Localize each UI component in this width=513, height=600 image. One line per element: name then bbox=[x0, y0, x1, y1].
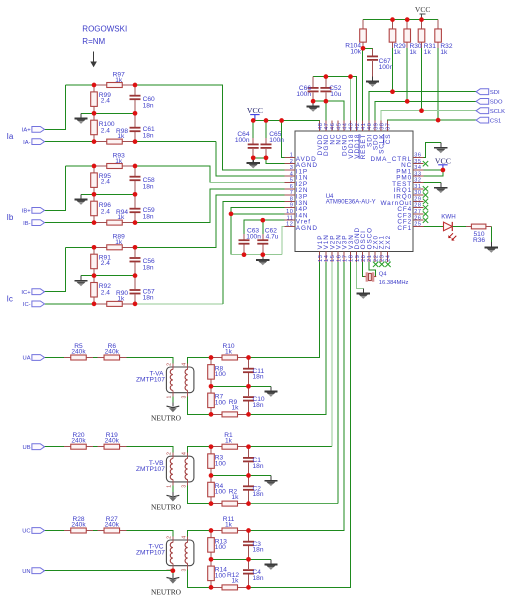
svg-text:40: 40 bbox=[367, 123, 373, 130]
svg-text:2.4: 2.4 bbox=[101, 98, 110, 105]
svg-text:Ic: Ic bbox=[7, 295, 13, 304]
svg-text:10k: 10k bbox=[350, 48, 361, 55]
svg-text:47: 47 bbox=[324, 123, 330, 130]
svg-text:UC: UC bbox=[22, 529, 30, 535]
svg-text:48: 48 bbox=[318, 123, 324, 130]
svg-text:100n: 100n bbox=[379, 64, 394, 71]
svg-text:27: 27 bbox=[414, 209, 421, 215]
svg-text:NEUTRO: NEUTRO bbox=[151, 587, 182, 596]
svg-text:42: 42 bbox=[355, 123, 361, 130]
svg-text:38: 38 bbox=[380, 123, 386, 130]
svg-text:100n: 100n bbox=[246, 233, 261, 240]
svg-text:CS1: CS1 bbox=[490, 118, 501, 124]
svg-text:30: 30 bbox=[414, 190, 421, 196]
svg-text:4: 4 bbox=[182, 363, 188, 366]
svg-text:2.4: 2.4 bbox=[101, 127, 110, 134]
svg-text:1k: 1k bbox=[232, 494, 240, 501]
svg-text:240k: 240k bbox=[71, 438, 86, 445]
svg-text:2.4: 2.4 bbox=[101, 179, 110, 186]
svg-text:R=NM: R=NM bbox=[82, 37, 105, 46]
svg-text:18n: 18n bbox=[143, 295, 154, 302]
svg-text:18n: 18n bbox=[253, 402, 264, 409]
svg-text:100n: 100n bbox=[296, 91, 311, 98]
svg-text:16: 16 bbox=[336, 255, 342, 262]
svg-text:100n: 100n bbox=[235, 137, 250, 144]
svg-text:1k: 1k bbox=[225, 521, 233, 528]
svg-text:100: 100 bbox=[215, 489, 226, 496]
svg-text:32: 32 bbox=[414, 178, 421, 184]
svg-text:ATM90E36A-AU-Y: ATM90E36A-AU-Y bbox=[326, 200, 376, 206]
svg-text:44: 44 bbox=[343, 123, 349, 130]
svg-text:SDO: SDO bbox=[490, 100, 503, 106]
svg-text:18n: 18n bbox=[253, 374, 264, 381]
svg-text:IC-: IC- bbox=[23, 302, 31, 308]
svg-text:1k: 1k bbox=[394, 49, 402, 56]
svg-text:34: 34 bbox=[414, 165, 421, 171]
svg-text:UB: UB bbox=[23, 445, 31, 451]
svg-text:2: 2 bbox=[167, 363, 173, 366]
svg-text:IA-: IA- bbox=[23, 140, 30, 146]
svg-text:VCC: VCC bbox=[415, 5, 431, 14]
svg-text:ZMTP107: ZMTP107 bbox=[136, 377, 165, 384]
svg-text:26: 26 bbox=[414, 215, 421, 221]
svg-text:240k: 240k bbox=[71, 348, 86, 355]
svg-text:100: 100 bbox=[215, 371, 226, 378]
svg-text:AGND: AGND bbox=[296, 225, 318, 232]
svg-text:1k: 1k bbox=[225, 438, 233, 445]
svg-text:2.4: 2.4 bbox=[101, 260, 110, 267]
svg-text:IA+: IA+ bbox=[22, 128, 31, 134]
svg-text:2.4: 2.4 bbox=[101, 290, 110, 297]
svg-text:Ib: Ib bbox=[7, 213, 14, 222]
svg-text:33: 33 bbox=[414, 171, 421, 177]
svg-text:Ia: Ia bbox=[7, 132, 14, 141]
svg-text:9: 9 bbox=[290, 203, 294, 209]
svg-text:6: 6 bbox=[290, 184, 294, 190]
svg-text:11: 11 bbox=[287, 215, 294, 221]
svg-text:1k: 1k bbox=[117, 214, 125, 221]
svg-text:36: 36 bbox=[414, 153, 421, 159]
svg-text:18n: 18n bbox=[143, 132, 154, 139]
svg-text:240k: 240k bbox=[105, 521, 120, 528]
svg-text:Q4: Q4 bbox=[379, 272, 388, 278]
svg-text:1k: 1k bbox=[115, 158, 123, 165]
svg-text:46: 46 bbox=[330, 123, 336, 130]
svg-text:43: 43 bbox=[349, 123, 355, 130]
svg-text:3: 3 bbox=[182, 485, 188, 488]
svg-text:4: 4 bbox=[182, 536, 188, 539]
svg-text:1k: 1k bbox=[115, 77, 123, 84]
svg-text:100: 100 bbox=[215, 573, 226, 580]
svg-text:IB+: IB+ bbox=[22, 209, 31, 215]
svg-text:UN: UN bbox=[22, 569, 30, 575]
svg-text:240k: 240k bbox=[105, 348, 120, 355]
svg-text:3: 3 bbox=[182, 569, 188, 572]
svg-text:1k: 1k bbox=[440, 49, 448, 56]
svg-text:24: 24 bbox=[386, 255, 392, 262]
svg-text:21: 21 bbox=[367, 255, 373, 262]
svg-text:4.7u: 4.7u bbox=[266, 233, 279, 240]
svg-text:4: 4 bbox=[182, 452, 188, 455]
svg-text:15: 15 bbox=[330, 255, 336, 262]
svg-text:1k: 1k bbox=[115, 239, 123, 246]
svg-text:VCC: VCC bbox=[435, 156, 451, 165]
svg-text:2: 2 bbox=[167, 536, 173, 539]
svg-text:ZX2: ZX2 bbox=[385, 235, 392, 249]
svg-text:240k: 240k bbox=[71, 521, 86, 528]
svg-text:35: 35 bbox=[414, 159, 421, 165]
svg-text:ZMTP107: ZMTP107 bbox=[136, 466, 165, 473]
svg-text:1k: 1k bbox=[424, 49, 432, 56]
svg-text:14: 14 bbox=[324, 255, 330, 262]
svg-text:CF1: CF1 bbox=[397, 225, 412, 232]
svg-text:IB-: IB- bbox=[23, 221, 30, 227]
svg-text:2: 2 bbox=[290, 159, 294, 165]
svg-text:1: 1 bbox=[290, 153, 294, 159]
svg-text:4: 4 bbox=[290, 171, 294, 177]
svg-text:18n: 18n bbox=[143, 102, 154, 109]
svg-text:22: 22 bbox=[373, 255, 379, 262]
svg-text:18n: 18n bbox=[143, 265, 154, 272]
svg-text:2.4: 2.4 bbox=[101, 208, 110, 215]
svg-text:31: 31 bbox=[414, 184, 421, 190]
svg-text:29: 29 bbox=[414, 197, 421, 203]
svg-text:39: 39 bbox=[373, 123, 379, 130]
svg-text:ROGOWSKI: ROGOWSKI bbox=[82, 25, 127, 34]
svg-text:18n: 18n bbox=[143, 183, 154, 190]
svg-text:1: 1 bbox=[167, 485, 173, 488]
svg-text:1k: 1k bbox=[410, 49, 418, 56]
svg-text:3: 3 bbox=[290, 165, 294, 171]
svg-text:18n: 18n bbox=[253, 463, 264, 470]
svg-text:10u: 10u bbox=[330, 91, 341, 98]
svg-text:8: 8 bbox=[290, 197, 294, 203]
svg-text:2: 2 bbox=[167, 452, 173, 455]
svg-text:41: 41 bbox=[361, 123, 367, 130]
svg-text:100n: 100n bbox=[269, 137, 284, 144]
svg-text:SDI: SDI bbox=[490, 90, 500, 96]
svg-text:NEUTRO: NEUTRO bbox=[151, 413, 182, 422]
svg-text:SCLK: SCLK bbox=[490, 109, 505, 115]
svg-text:KWH: KWH bbox=[441, 214, 455, 221]
svg-text:UA: UA bbox=[23, 356, 31, 362]
svg-text:1k: 1k bbox=[117, 296, 125, 303]
svg-text:18n: 18n bbox=[253, 547, 264, 554]
svg-text:ZMTP107: ZMTP107 bbox=[136, 550, 165, 557]
svg-text:19: 19 bbox=[355, 255, 361, 262]
svg-text:18: 18 bbox=[349, 255, 355, 262]
svg-text:CS: CS bbox=[385, 134, 392, 145]
svg-text:23: 23 bbox=[380, 255, 386, 262]
svg-text:28: 28 bbox=[414, 203, 421, 209]
svg-text:45: 45 bbox=[336, 123, 342, 130]
svg-text:IC+: IC+ bbox=[21, 290, 31, 296]
svg-text:1k: 1k bbox=[225, 348, 233, 355]
svg-text:10: 10 bbox=[286, 209, 293, 215]
svg-text:13: 13 bbox=[318, 255, 324, 262]
svg-text:VCC: VCC bbox=[247, 106, 263, 115]
svg-text:17: 17 bbox=[343, 255, 349, 262]
svg-text:20: 20 bbox=[361, 255, 367, 262]
svg-text:18n: 18n bbox=[143, 213, 154, 220]
svg-text:1k: 1k bbox=[232, 578, 240, 585]
svg-text:100: 100 bbox=[215, 544, 226, 551]
svg-text:1: 1 bbox=[167, 396, 173, 399]
svg-text:37: 37 bbox=[386, 123, 392, 130]
svg-text:12: 12 bbox=[286, 222, 293, 228]
svg-text:100: 100 bbox=[215, 400, 226, 407]
svg-text:16.384MHz: 16.384MHz bbox=[379, 280, 409, 286]
svg-text:1k: 1k bbox=[117, 133, 125, 140]
svg-text:NEUTRO: NEUTRO bbox=[151, 503, 182, 512]
svg-text:18n: 18n bbox=[253, 491, 264, 498]
svg-text:3: 3 bbox=[182, 396, 188, 399]
svg-text:5: 5 bbox=[290, 178, 294, 184]
svg-text:25: 25 bbox=[414, 222, 421, 228]
svg-text:R36: R36 bbox=[473, 237, 485, 244]
svg-text:18n: 18n bbox=[253, 575, 264, 582]
svg-text:100: 100 bbox=[215, 460, 226, 467]
svg-text:240k: 240k bbox=[105, 438, 120, 445]
svg-text:1k: 1k bbox=[232, 405, 240, 412]
svg-text:7: 7 bbox=[290, 190, 294, 196]
